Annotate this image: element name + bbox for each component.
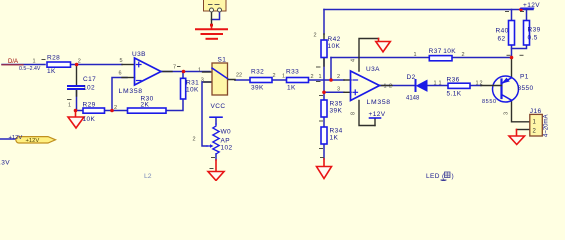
svg-text:R36: R36 [447,77,460,84]
svg-text:1: 1 [439,81,442,87]
svg-text:1: 1 [476,81,479,87]
svg-text:+12V: +12V [26,138,40,144]
svg-text:W0: W0 [221,129,232,136]
svg-text:S1: S1 [218,57,227,64]
svg-text:U3B: U3B [132,51,146,58]
svg-text:3: 3 [201,78,204,84]
svg-text:10K: 10K [443,48,456,55]
svg-text:39K: 39K [251,85,264,92]
svg-text:D2: D2 [407,74,416,81]
svg-text:1: 1 [434,81,437,87]
svg-text:22: 22 [236,73,242,79]
svg-text:2: 2 [480,81,483,87]
svg-text:R37: R37 [429,48,442,55]
svg-text:R42: R42 [328,36,341,43]
svg-text:+12V: +12V [523,2,540,9]
svg-text:102: 102 [221,145,233,152]
svg-text:D/A: D/A [8,59,18,65]
svg-text:C17: C17 [83,76,96,83]
svg-text:2: 2 [311,74,314,80]
svg-text:2: 2 [337,74,340,80]
svg-text:2K: 2K [141,102,150,109]
svg-text:+12V: +12V [369,111,386,118]
svg-text:R29: R29 [83,102,96,109]
svg-text:R39: R39 [528,27,541,34]
svg-text:): ) [452,173,455,180]
svg-text:1: 1 [198,67,201,73]
svg-text:LM358: LM358 [367,99,391,106]
svg-text:P1: P1 [520,74,529,81]
svg-text:L2: L2 [144,173,152,180]
svg-text:4148: 4148 [406,96,420,102]
svg-text:LED (: LED ( [426,173,445,180]
svg-text:0.5--2.4V: 0.5--2.4V [19,66,41,72]
svg-text:7: 7 [173,64,176,70]
svg-text:62: 62 [498,36,506,43]
svg-text:2: 2 [193,137,196,143]
svg-text:10K: 10K [328,43,341,50]
svg-text:2: 2 [78,59,81,65]
svg-text:10K: 10K [83,116,96,123]
svg-text:R28: R28 [47,55,60,62]
svg-text:4~20mA: 4~20mA [544,114,550,137]
svg-text:5.1K: 5.1K [447,91,462,98]
svg-text:2: 2 [314,33,317,39]
svg-text:0.5: 0.5 [528,35,538,42]
svg-text:+12V: +12V [9,135,23,141]
svg-text:1: 1 [282,74,285,80]
svg-text:2: 2 [114,105,117,111]
svg-text:VCC: VCC [211,103,226,110]
svg-text:1: 1 [319,74,322,80]
svg-text:U3A: U3A [366,66,380,73]
svg-text:4: 4 [351,59,357,62]
svg-text:3: 3 [504,112,510,115]
svg-text:J16: J16 [530,108,542,115]
svg-text:3: 3 [337,86,340,92]
svg-text:2: 2 [273,73,276,79]
svg-text:R33: R33 [286,69,299,76]
svg-text:1: 1 [384,84,387,90]
svg-text:1K: 1K [287,85,296,92]
svg-text:R40: R40 [496,28,509,35]
svg-text:R34: R34 [330,128,343,135]
svg-text:10K: 10K [186,87,199,94]
svg-text:1K: 1K [47,68,56,75]
svg-text:8: 8 [351,112,357,115]
svg-text:6: 6 [119,71,122,77]
svg-text:R32: R32 [251,69,264,76]
svg-text:R35: R35 [330,101,343,108]
svg-text:1: 1 [414,52,417,58]
svg-text:2: 2 [389,84,392,90]
svg-text:LM358: LM358 [119,88,143,95]
svg-text:AP: AP [221,138,230,145]
svg-text:R31: R31 [186,80,199,87]
svg-text:2: 2 [462,52,465,58]
svg-text:8550: 8550 [482,99,497,105]
svg-text:8550: 8550 [518,85,534,92]
svg-text:102: 102 [83,85,95,92]
svg-text:3.3V: 3.3V [0,160,10,167]
svg-text:39K: 39K [330,108,343,115]
svg-text:1: 1 [33,58,36,64]
svg-text:1K: 1K [330,135,339,142]
svg-text:5: 5 [120,58,123,64]
svg-text:1: 1 [68,103,71,109]
